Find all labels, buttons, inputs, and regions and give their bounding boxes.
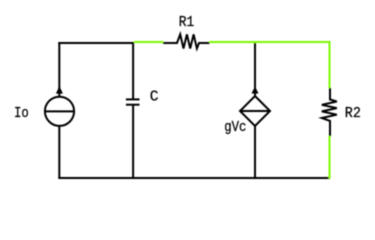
capacitor C: top pin from top rail to upper plate: [132, 42, 134, 99]
svg-text:gVc: gVc: [224, 120, 246, 136]
wire: top rail green segment from R1 right lead to top-right corner: [209, 41, 330, 43]
controlled source gVc: arrowhead pointing up on top lead: [252, 86, 259, 93]
resistor R2: vertical body with leads and zigzag: [322, 88, 337, 136]
svg-text:Io: Io: [14, 106, 29, 122]
svg-text:R2: R2: [345, 106, 361, 122]
current source Io: arrowhead pointing up on top lead: [56, 86, 63, 94]
capacitor C: lower plate: [126, 104, 140, 106]
current source Io: circle body: [45, 97, 74, 126]
controlled source gVc: bottom pin from diamond to bottom rail: [254, 126, 256, 178]
svg-text:C: C: [150, 90, 159, 106]
resistor R1: horizontal body with leads and zigzag: [163, 34, 210, 48]
wire: top rail green segment from capacitor node to R1 left lead: [134, 41, 163, 43]
wire: right vertical green segment from R2 bottom lead to bottom rail: [329, 136, 331, 179]
wire: left vertical black from top rail down to Io source arrow: [58, 42, 60, 97]
wire: left vertical black from Io source bottom to bottom rail: [58, 126, 60, 179]
controlled source gVc: horizontal bar through diamond: [240, 110, 270, 112]
svg-text:R1: R1: [179, 15, 195, 31]
capacitor C: upper plate: [126, 98, 140, 100]
current source Io: horizontal bar through circle: [45, 110, 74, 112]
wire: bottom rail black from left corner to green right corner: [58, 177, 330, 179]
controlled source gVc: top pin from top rail to diamond: [254, 42, 256, 97]
wire: right vertical green segment from top corner to R2 top lead: [329, 42, 331, 88]
capacitor C: bottom pin from lower plate to bottom rail: [132, 105, 134, 178]
controlled source gVc: diamond body: [240, 96, 270, 126]
wire: top rail black segment from left corner to capacitor node: [58, 42, 134, 44]
